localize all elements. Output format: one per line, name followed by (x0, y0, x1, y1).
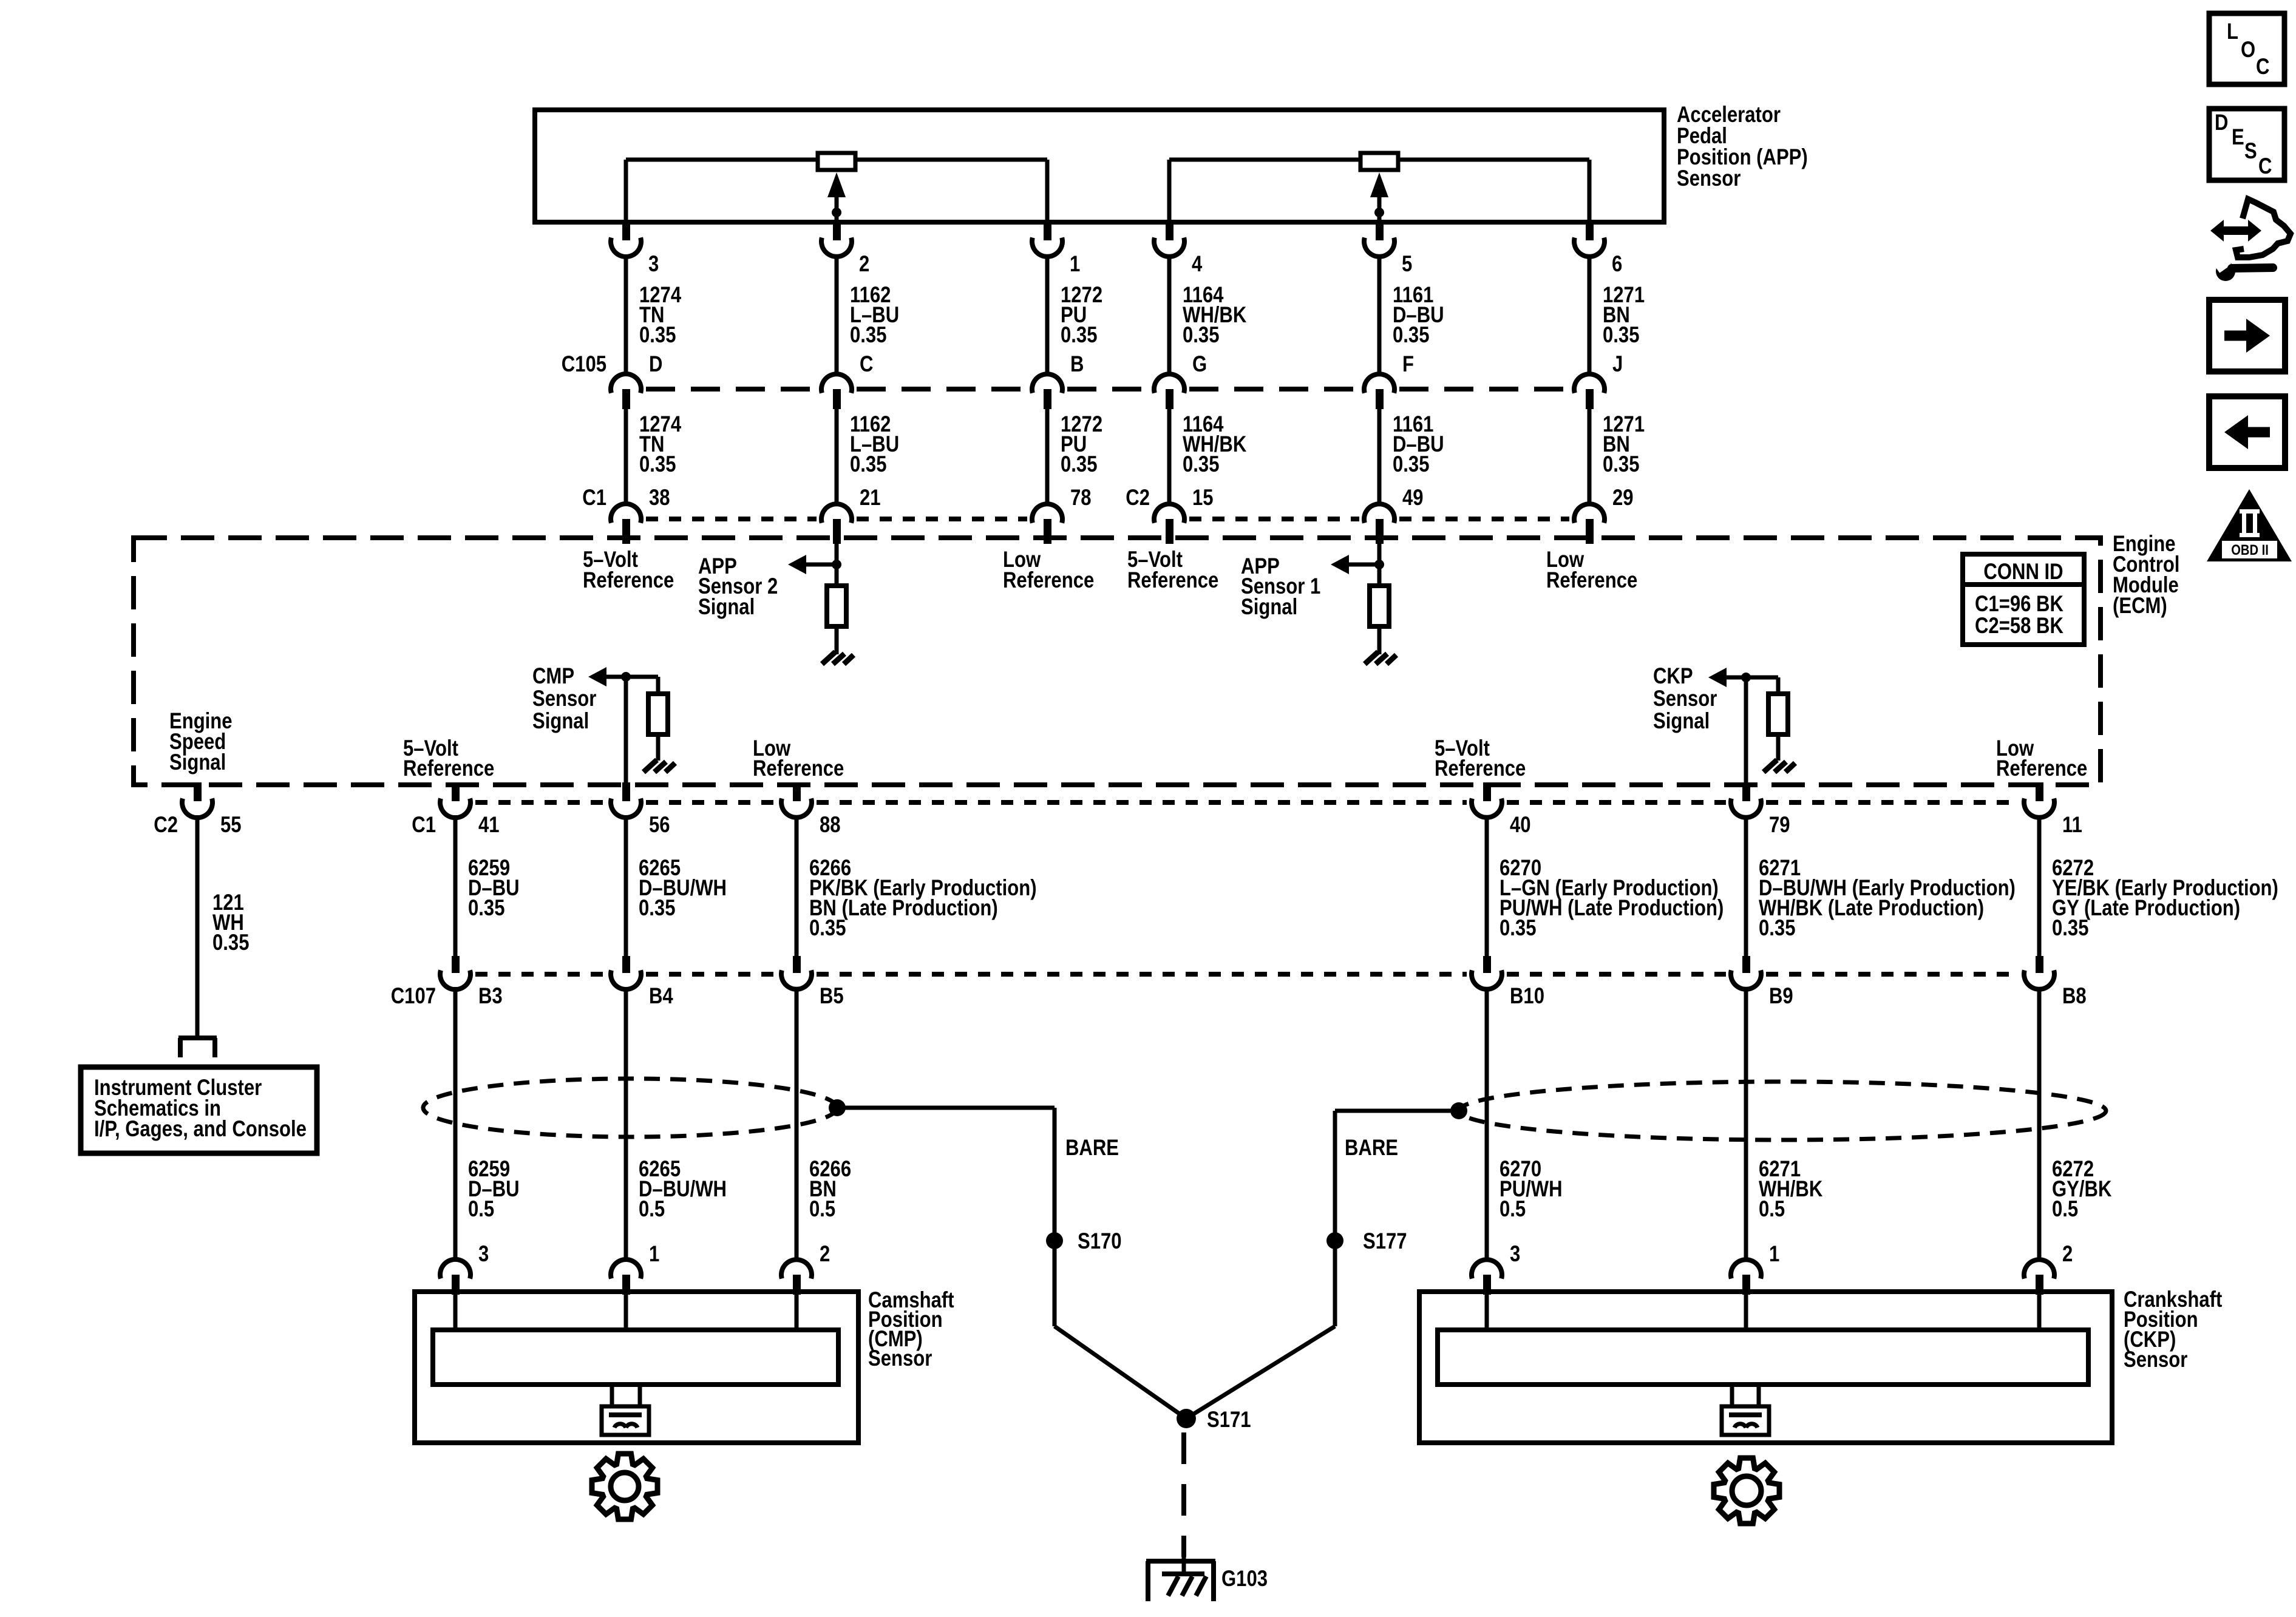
wire resistor to ground (CKP) (1776, 734, 1781, 761)
APP sensor 1 potentiometer track (1169, 158, 1360, 162)
C107 terminal B5 (793, 956, 801, 973)
svg-text:C105: C105 (562, 352, 606, 377)
sensor terminal 2 (781, 1259, 812, 1278)
svg-text:Reference: Reference (1996, 756, 2087, 781)
resistor R3 (CMP signal) (648, 694, 668, 734)
svg-text:J: J (1612, 352, 1623, 377)
svg-text:S177: S177 (1363, 1229, 1407, 1254)
svg-text:Reference: Reference (1546, 568, 1637, 593)
camshaft position sensor box (415, 1292, 858, 1443)
wire CMP signal to pin 56 (624, 677, 628, 785)
CMP internal wire pin 3 (453, 1293, 458, 1330)
APP pin 2 terminal (833, 222, 841, 240)
C105 terminal B (1032, 374, 1062, 393)
svg-text:Signal: Signal (532, 709, 589, 734)
wire pin 5 to C105 (1377, 254, 1382, 375)
svg-text:C1=96 BK: C1=96 BK (1975, 592, 2063, 617)
ECM bottom terminal 88 (793, 782, 801, 801)
connector C1 dotted line (top) (646, 517, 817, 521)
APP sensor 2 potentiometer track (626, 158, 818, 162)
svg-text:6: 6 (1612, 252, 1622, 277)
svg-text:0.35: 0.35 (1183, 452, 1219, 477)
svg-text:0.35: 0.35 (468, 896, 504, 921)
svg-text:Sensor: Sensor (1653, 686, 1717, 711)
svg-text:(ECM): (ECM) (2113, 594, 2167, 619)
resistor R2 (APP sensor 1 pull-down) (1370, 586, 1389, 626)
svg-text:OBD II: OBD II (2231, 541, 2269, 558)
svg-text:0.5: 0.5 (1759, 1197, 1785, 1222)
sensor terminal 1 (611, 1259, 641, 1278)
wire CKP jog to resistor (1746, 676, 1778, 680)
bare shield wire (CKP) (1335, 1109, 1459, 1113)
svg-text:G: G (1192, 352, 1207, 377)
junction dot pin 21 (832, 560, 841, 569)
wire F to ECM (1377, 409, 1382, 505)
C105 terminal D (611, 374, 641, 393)
ground (CKP signal) (1764, 760, 1777, 772)
CMP internal wire pin 2 (795, 1293, 799, 1330)
ECM bottom terminal 11 (2036, 782, 2043, 801)
wire B4 to sensor (624, 987, 628, 1261)
CMP reluctor gear (592, 1454, 657, 1519)
APP pin 3 terminal (622, 222, 630, 240)
svg-text:11: 11 (2062, 813, 2082, 838)
accelerator pedal position sensor box (535, 110, 1664, 222)
wire B3 to sensor (453, 987, 458, 1261)
splice S177 (1326, 1232, 1343, 1249)
wire C to ECM (835, 409, 839, 505)
CKP reluctor gear (1714, 1458, 1779, 1524)
C107 terminal B8 (2036, 956, 2043, 973)
wire CKP signal to pin 79 (1744, 677, 1748, 785)
svg-text:C1: C1 (412, 813, 436, 838)
CMP internal wire pin 1 (624, 1293, 628, 1330)
svg-text:0.35: 0.35 (1393, 452, 1429, 477)
svg-text:D: D (2215, 110, 2228, 135)
svg-text:0.35: 0.35 (212, 931, 249, 955)
CMP hall element (610, 1385, 614, 1406)
svg-text:79: 79 (1769, 813, 1790, 838)
svg-text:49: 49 (1402, 486, 1424, 510)
svg-text:1: 1 (1070, 252, 1080, 277)
ECM terminal 21 (821, 504, 852, 523)
DESC icon (2209, 109, 2284, 180)
svg-text:1: 1 (649, 1242, 659, 1267)
bare shield wire (CMP) (837, 1106, 1055, 1110)
service icon (hand with wrench) (2210, 220, 2261, 242)
connector C105 dashed line (646, 387, 817, 392)
svg-text:BARE: BARE (1065, 1136, 1119, 1161)
APP sensor 1 signal arrow (1331, 555, 1349, 574)
svg-text:Reference: Reference (1127, 568, 1218, 593)
forward arrow icon (2209, 300, 2285, 371)
wire 40 to C107 (1485, 815, 1489, 957)
resistor R1 (APP sensor 2 pull-down) (827, 586, 846, 626)
svg-text:15: 15 (1192, 486, 1214, 510)
svg-text:0.35: 0.35 (850, 452, 886, 477)
OBD II icon (2207, 489, 2292, 561)
CMP sensor inner element (433, 1330, 838, 1385)
wire B to ECM (1045, 409, 1050, 505)
APP pin 6 terminal (1586, 222, 1594, 240)
svg-text:B4: B4 (649, 984, 673, 1009)
junction dot pin 49 (1374, 560, 1384, 569)
APP sensor 2 wiper arrow (827, 172, 846, 197)
CMP sensor signal arrow (588, 667, 606, 686)
wire resistor to ground (CMP) (656, 734, 661, 761)
svg-text:CMP: CMP (532, 664, 574, 689)
engine control module dashed box (134, 538, 2101, 785)
svg-text:Signal: Signal (698, 595, 755, 620)
svg-text:40: 40 (1510, 813, 1531, 838)
dashed wire S171 to G103 (1181, 1432, 1186, 1557)
wire D to ECM (624, 409, 628, 505)
APP sensor 1 potentiometer body (1360, 153, 1398, 170)
svg-text:B3: B3 (478, 984, 503, 1009)
resistor R4 (CKP signal) (1768, 694, 1788, 734)
C107 terminal B4 (622, 956, 630, 973)
svg-text:S: S (2244, 139, 2257, 164)
APP pin 4 terminal (1166, 222, 1173, 240)
svg-text:0.5: 0.5 (639, 1197, 665, 1222)
svg-text:C: C (860, 352, 873, 377)
sensor terminal 3 (440, 1259, 470, 1279)
shield junction dot (CMP) (829, 1099, 846, 1116)
svg-text:0.35: 0.35 (1603, 452, 1639, 477)
svg-text:E: E (2232, 125, 2244, 150)
LOC icon (2209, 13, 2284, 84)
ECM terminal 29 (1574, 504, 1605, 523)
svg-text:D: D (649, 352, 662, 377)
svg-text:78: 78 (1070, 486, 1092, 510)
APP sensor 1 wiper arrow (1370, 172, 1388, 197)
wire resistor to ground (sensor 1) (1377, 626, 1382, 654)
wire B9 to sensor (1744, 987, 1748, 1261)
wire pin 1 to C105 (1045, 254, 1050, 375)
APP sensor 2 signal arrow (788, 555, 806, 574)
svg-text:C2=58 BK: C2=58 BK (1975, 614, 2063, 639)
svg-text:0.35: 0.35 (1603, 323, 1639, 348)
svg-text:0.35: 0.35 (1061, 323, 1097, 348)
svg-text:1: 1 (1769, 1242, 1779, 1267)
ECM bottom terminal 41 (452, 782, 460, 801)
ECM terminal 38 (611, 504, 641, 523)
svg-text:Sensor: Sensor (1677, 166, 1741, 191)
wire to resistor (sensor 2) (835, 564, 839, 586)
APP pin 1 terminal (1044, 222, 1051, 240)
C105 terminal C (821, 374, 852, 393)
wire pin 4 to C105 (1167, 254, 1172, 375)
sensor terminal 3 (1472, 1259, 1502, 1278)
C105 terminal G (1154, 374, 1184, 393)
junction dot CMP signal (621, 672, 631, 682)
svg-text:0.5: 0.5 (2052, 1197, 2078, 1222)
svg-text:C1: C1 (582, 486, 606, 510)
wire pin 3 to C105 (624, 254, 628, 375)
svg-text:0.35: 0.35 (1500, 916, 1536, 941)
svg-text:2: 2 (859, 252, 869, 277)
svg-text:3: 3 (1510, 1242, 1520, 1267)
CKP internal wire pin 3 (1485, 1293, 1489, 1330)
svg-text:C2: C2 (154, 813, 178, 838)
back arrow icon (2209, 396, 2285, 468)
splice S170 (1046, 1232, 1063, 1249)
svg-text:I/P, Gages, and Console: I/P, Gages, and Console (94, 1117, 307, 1142)
wire B10 to sensor (1485, 987, 1489, 1261)
svg-text:0.35: 0.35 (1393, 323, 1429, 348)
APP sensor 1 wiper junction dot (1374, 208, 1384, 217)
ECM bottom terminal 55 (194, 782, 202, 801)
svg-text:56: 56 (649, 813, 670, 838)
crankshaft position sensor box (1419, 1292, 2112, 1443)
wire G to ECM (1167, 409, 1172, 505)
svg-text:88: 88 (820, 813, 841, 838)
svg-text:0.35: 0.35 (1759, 916, 1795, 941)
CKP hall element (1730, 1385, 1734, 1406)
svg-text:0.35: 0.35 (639, 452, 676, 477)
svg-text:5: 5 (1402, 252, 1412, 277)
svg-text:S171: S171 (1207, 1408, 1251, 1432)
APP sensor 2 potentiometer body (818, 153, 855, 170)
svg-text:G103: G103 (1221, 1567, 1268, 1592)
svg-text:L: L (2227, 19, 2238, 44)
wire pin 2 to C105 (835, 254, 839, 375)
wire 11 to C107 (2037, 815, 2042, 957)
wire CMP jog to resistor (626, 675, 658, 679)
connector C107 dotted line (475, 972, 606, 977)
svg-text:38: 38 (649, 486, 670, 510)
wire 56 to C107 (624, 815, 628, 957)
svg-text:Reference: Reference (403, 756, 494, 781)
svg-text:0.35: 0.35 (639, 323, 676, 348)
svg-text:3: 3 (648, 252, 659, 277)
svg-text:Reference: Reference (1435, 756, 1526, 781)
wire 41 to C107 (453, 815, 458, 957)
wire pin 21 into ECM (835, 542, 839, 564)
CKP internal wire pin 1 (1744, 1293, 1748, 1330)
svg-text:B: B (1070, 352, 1084, 377)
svg-text:CKP: CKP (1653, 664, 1693, 689)
splice S171 (1177, 1409, 1196, 1428)
shield junction dot (CKP) (1450, 1102, 1467, 1119)
svg-text:B5: B5 (820, 984, 844, 1009)
C107 terminal B10 (1483, 956, 1491, 973)
instrument cluster reference box (81, 1067, 317, 1153)
svg-text:C107: C107 (391, 984, 436, 1009)
svg-text:0.35: 0.35 (809, 916, 846, 941)
svg-text:0.35: 0.35 (2052, 916, 2088, 941)
svg-text:21: 21 (860, 486, 881, 510)
sensor terminal 1 (1731, 1259, 1761, 1278)
svg-text:O: O (2241, 38, 2255, 63)
APP sensor 2 wiper junction dot (832, 208, 841, 217)
svg-text:B10: B10 (1510, 984, 1544, 1009)
wire resistor to ground (sensor 2) (835, 626, 839, 654)
svg-text:29: 29 (1612, 486, 1634, 510)
svg-text:0.35: 0.35 (850, 323, 886, 348)
svg-text:Reference: Reference (583, 568, 674, 593)
svg-text:Sensor: Sensor (868, 1346, 932, 1371)
svg-text:2: 2 (820, 1242, 830, 1267)
svg-text:Sensor: Sensor (532, 686, 596, 711)
svg-text:0.5: 0.5 (1500, 1197, 1526, 1222)
svg-text:Signal: Signal (1241, 595, 1297, 620)
svg-text:Sensor: Sensor (2124, 1347, 2187, 1372)
ECM terminal 78 (1032, 504, 1062, 523)
shield ellipse (CKP harness) (1459, 1082, 2106, 1140)
wire B8 to sensor (2037, 987, 2042, 1261)
C105 terminal J (1574, 374, 1605, 393)
ECM terminal 15 (1154, 504, 1184, 523)
shield ellipse (CMP harness) (423, 1079, 837, 1137)
CKP sensor inner element (1438, 1330, 2088, 1385)
svg-text:0.5: 0.5 (809, 1197, 835, 1222)
wire J to ECM (1588, 409, 1592, 505)
wire 88 to C107 (795, 815, 799, 957)
svg-text:C2: C2 (1126, 486, 1150, 510)
svg-text:F: F (1402, 352, 1414, 377)
sensor terminal 2 (2024, 1259, 2054, 1278)
wire to resistor (sensor 1) (1377, 564, 1382, 586)
off-page connector to instrument cluster (178, 1036, 217, 1040)
svg-text:Signal: Signal (1653, 709, 1710, 734)
svg-text:B8: B8 (2062, 984, 2087, 1009)
connector C2 dotted line (top) (1189, 517, 1359, 521)
svg-text:CONN ID: CONN ID (1983, 560, 2063, 585)
ground (APP sensor 1) (1365, 652, 1378, 664)
connector row dotted line (C1 bottom / C2) (475, 800, 606, 805)
svg-text:S170: S170 (1078, 1229, 1122, 1254)
APP pin 5 terminal (1376, 222, 1384, 240)
svg-text:C: C (2256, 55, 2269, 80)
svg-text:Reference: Reference (1003, 568, 1094, 593)
svg-text:0.35: 0.35 (1061, 452, 1097, 477)
svg-text:2: 2 (2062, 1242, 2073, 1267)
ECM bottom terminal 79 (1742, 782, 1750, 801)
svg-text:3: 3 (478, 1242, 489, 1267)
ECM terminal 49 (1364, 504, 1394, 523)
svg-text:4: 4 (1192, 252, 1202, 277)
wire 121 to instrument cluster (195, 815, 200, 1038)
ECM bottom terminal 40 (1483, 782, 1491, 801)
svg-text:0.35: 0.35 (1183, 323, 1219, 348)
C107 terminal B9 (1742, 956, 1750, 973)
C107 terminal B3 (452, 956, 460, 973)
wire pin 49 into ECM (1377, 542, 1382, 564)
svg-text:Reference: Reference (753, 756, 844, 781)
svg-text:0.35: 0.35 (639, 896, 675, 921)
svg-text:B9: B9 (1769, 984, 1793, 1009)
svg-text:BARE: BARE (1345, 1136, 1398, 1161)
svg-text:C: C (2258, 154, 2272, 179)
svg-text:55: 55 (220, 813, 242, 838)
C105 terminal F (1364, 374, 1394, 393)
ground G103 (1146, 1559, 1215, 1564)
svg-text:0.5: 0.5 (468, 1197, 494, 1222)
ECM bottom terminal 56 (622, 782, 630, 801)
wire 79 to C107 (1744, 815, 1748, 957)
CONN ID box (1963, 554, 2084, 645)
CKP internal wire pin 2 (2037, 1293, 2042, 1330)
junction dot CKP signal (1741, 673, 1751, 682)
svg-text:Signal: Signal (169, 750, 226, 775)
ground (CMP signal) (644, 760, 657, 772)
wire pin 6 to C105 (1588, 254, 1592, 375)
svg-text:41: 41 (478, 813, 500, 838)
ground (APP sensor 2) (822, 652, 835, 664)
CKP sensor signal arrow (1708, 668, 1727, 687)
wire B5 to sensor (795, 987, 799, 1261)
